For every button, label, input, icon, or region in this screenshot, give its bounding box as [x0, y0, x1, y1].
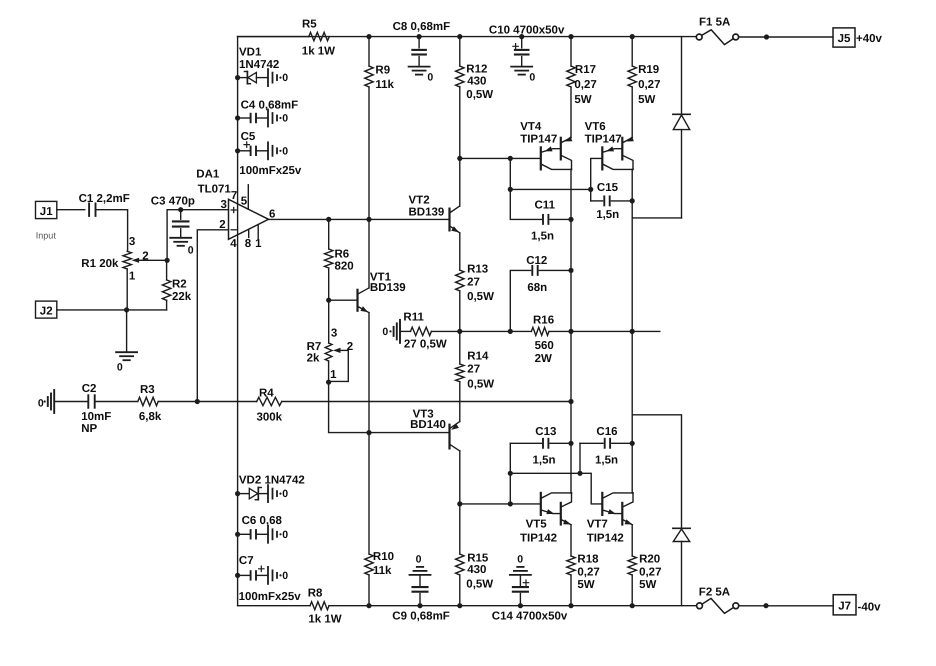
- connector J2: [36, 301, 57, 318]
- svg-text:6: 6: [269, 208, 275, 220]
- capacitor C13: [510, 426, 571, 504]
- wire VT5 collector to output column: [570, 443, 573, 493]
- node C13 at output column: [568, 441, 573, 446]
- capacitor C4: [238, 100, 299, 123]
- label pin 7: [231, 190, 237, 202]
- pin 8 stub: [248, 229, 250, 237]
- svg-text:R9: R9: [375, 65, 390, 77]
- node C15 at output column: [630, 198, 635, 203]
- svg-text:100mFx25v: 100mFx25v: [239, 591, 302, 603]
- svg-text:0: 0: [416, 553, 422, 565]
- wire right column mid: [631, 201, 633, 443]
- svg-text:0: 0: [427, 72, 433, 84]
- svg-text:5: 5: [241, 196, 248, 208]
- transistor VT7 TIP142: [587, 493, 633, 545]
- svg-text:C3 470p: C3 470p: [151, 196, 195, 208]
- svg-text:R4: R4: [259, 387, 274, 399]
- label R7 pin 2: [347, 341, 353, 353]
- resistor R6: [325, 219, 354, 300]
- wire VT4 base row: [460, 157, 541, 159]
- capacitor C12: [510, 255, 571, 331]
- transistor VT2 BD139: [409, 194, 460, 233]
- svg-text:R6: R6: [335, 249, 350, 261]
- wire R1 ground stub: [126, 310, 128, 352]
- node C11 at output column: [568, 217, 573, 222]
- svg-text:R20: R20: [639, 553, 660, 565]
- svg-text:0: 0: [282, 72, 288, 84]
- ground right of C7: [268, 567, 288, 584]
- wire tap down: [509, 158, 511, 189]
- svg-text:2W: 2W: [535, 353, 552, 365]
- node J2 row junction: [124, 307, 129, 312]
- svg-text:300k: 300k: [257, 412, 283, 424]
- label -40v: [858, 601, 882, 613]
- svg-text:0: 0: [529, 72, 535, 84]
- label pin 5: [241, 196, 248, 208]
- svg-text:0: 0: [282, 113, 288, 125]
- svg-text:C4 0,68mF: C4 0,68mF: [241, 100, 299, 112]
- svg-text:0: 0: [517, 553, 523, 565]
- ground under C8: [409, 67, 434, 84]
- capacitor C10 polarized: [489, 25, 565, 67]
- svg-text:VT2: VT2: [409, 194, 430, 206]
- svg-text:J5: J5: [838, 33, 851, 45]
- label R1 pin 2: [142, 250, 148, 262]
- svg-text:R13: R13: [467, 263, 488, 275]
- svg-text:1,5n: 1,5n: [595, 455, 618, 467]
- label pin 3: [221, 199, 227, 211]
- resistor R12: [456, 37, 494, 159]
- svg-text:+40v: +40v: [856, 33, 883, 45]
- wire R7 to VT3 base: [329, 382, 450, 432]
- node op-amp output at R9 column: [366, 217, 371, 222]
- node after F1: [764, 34, 769, 39]
- node C16 column: [577, 471, 582, 476]
- wire VT3 collector down: [459, 451, 461, 504]
- svg-text:0: 0: [282, 145, 288, 157]
- resistor R8: [308, 587, 342, 625]
- svg-text:R3: R3: [140, 384, 155, 396]
- wiper arrow of R1: [132, 258, 145, 263]
- svg-text:C9 0,68mF: C9 0,68mF: [392, 611, 450, 623]
- svg-text:C5: C5: [241, 131, 256, 143]
- svg-text:1: 1: [129, 270, 136, 282]
- node after F2: [763, 603, 768, 608]
- resistor R14: [456, 331, 495, 421]
- node R7 pin 1: [326, 380, 331, 385]
- node C14 bottom: [518, 603, 523, 608]
- wire node to R4: [197, 401, 256, 403]
- svg-text:VD1: VD1: [239, 47, 262, 59]
- svg-text:6,8k: 6,8k: [139, 411, 162, 423]
- wire VT5 base row: [460, 503, 541, 505]
- svg-text:C1 2,2mF: C1 2,2mF: [79, 193, 130, 205]
- svg-text:C15: C15: [597, 182, 619, 194]
- resistor R11: [403, 312, 446, 351]
- node feedback to op-amp pin 2: [195, 399, 200, 404]
- svg-text:11k: 11k: [373, 565, 392, 577]
- wire VT6 base jog: [591, 158, 603, 201]
- label R7 pin 1: [330, 369, 337, 381]
- node R15 bottom: [457, 603, 462, 608]
- node R10 bottom: [366, 603, 371, 608]
- svg-text:TIP142: TIP142: [520, 532, 557, 544]
- node C10 top: [519, 34, 524, 39]
- wire J2 to R2 bottom corner: [57, 309, 167, 311]
- svg-text:8: 8: [245, 238, 252, 250]
- svg-text:0,27: 0,27: [639, 567, 661, 579]
- svg-text:2k: 2k: [307, 352, 320, 364]
- svg-text:C2: C2: [82, 383, 97, 395]
- label +40v: [856, 33, 883, 45]
- wire ground to R11: [400, 330, 411, 332]
- pin 5 stub: [247, 185, 249, 209]
- ground right of VD2: [268, 485, 288, 502]
- node C3 tap: [178, 207, 183, 212]
- label C5 value: [239, 165, 302, 177]
- node VT4 base row at R12 column: [457, 156, 462, 161]
- wire R6 node to R7: [328, 300, 330, 343]
- label pin 4: [230, 238, 237, 250]
- op-amp minus input mark: [231, 229, 236, 231]
- resistor R19: [628, 37, 660, 138]
- wire bottom -40v rail R8 to fuse F2: [329, 605, 697, 607]
- node C5 tap: [235, 148, 240, 153]
- label R1 pin 1: [129, 270, 136, 282]
- wire VT7 base jog: [580, 473, 602, 504]
- label C7 value: [239, 591, 302, 603]
- zener diode VD2: [238, 474, 305, 499]
- capacitor C6: [238, 515, 283, 538]
- resistor R9: [365, 37, 395, 220]
- op-amp plus input mark: [231, 208, 236, 213]
- wiper arrow of R7: [333, 348, 348, 353]
- svg-text:C14 4700x50v: C14 4700x50v: [492, 611, 568, 623]
- resistor R2: [162, 260, 191, 310]
- svg-text:0: 0: [282, 488, 288, 500]
- node R16 left / C12 branch: [508, 329, 513, 334]
- svg-text:DA1: DA1: [196, 168, 220, 180]
- svg-text:7: 7: [231, 190, 237, 202]
- resistor R5: [238, 19, 336, 58]
- svg-text:0,27: 0,27: [638, 79, 660, 91]
- node VD1 tap: [235, 75, 240, 80]
- svg-text:22k: 22k: [172, 291, 192, 303]
- node C12 at output column: [568, 268, 573, 273]
- svg-text:VT7: VT7: [587, 519, 608, 531]
- transistor VT1 BD139: [358, 271, 406, 312]
- wire to R16: [510, 330, 531, 332]
- svg-text:27: 27: [467, 364, 480, 376]
- node C9 bottom: [417, 603, 422, 608]
- svg-text:1,5n: 1,5n: [533, 455, 556, 467]
- svg-text:C11: C11: [535, 200, 556, 212]
- transistor VT5 TIP142: [520, 493, 572, 545]
- svg-text:R10: R10: [373, 551, 394, 563]
- ground above C14: [510, 553, 531, 575]
- fuse F1: [696, 17, 738, 45]
- node VT4 base row tap: [508, 156, 513, 161]
- resistor R4: [257, 387, 283, 423]
- svg-text:R18: R18: [577, 553, 599, 565]
- svg-text:0: 0: [382, 326, 388, 338]
- svg-text:R12: R12: [466, 64, 487, 76]
- svg-text:C10 4700x50v: C10 4700x50v: [489, 25, 565, 37]
- wire C1 to R1 top: [96, 210, 128, 252]
- svg-text:560: 560: [535, 340, 554, 352]
- node C8 top: [417, 34, 422, 39]
- node R1 wiper / R2 / op-amp +input: [165, 258, 170, 263]
- svg-text:C6 0,68: C6 0,68: [242, 515, 283, 527]
- node VT5 base row tap: [508, 501, 513, 506]
- capacitor C16: [580, 426, 632, 473]
- svg-text:10mF: 10mF: [81, 411, 111, 423]
- wire VT7 collector to output column: [631, 443, 634, 493]
- wire upper diode to output column: [632, 217, 681, 219]
- svg-text:R15: R15: [467, 552, 489, 564]
- svg-text:1,5n: 1,5n: [531, 231, 554, 243]
- svg-text:0,5W: 0,5W: [467, 291, 494, 303]
- svg-text:0,5W: 0,5W: [467, 378, 494, 390]
- node output at column: [568, 329, 573, 334]
- wire output step to lower diode: [632, 415, 681, 529]
- svg-text:11k: 11k: [375, 79, 394, 91]
- svg-text:J1: J1: [40, 206, 53, 218]
- resistor R20: [628, 525, 661, 606]
- node C16 at output column: [630, 441, 635, 446]
- svg-text:C13: C13: [535, 426, 556, 438]
- svg-text:1N4742: 1N4742: [239, 59, 279, 71]
- resistor R18: [567, 525, 600, 606]
- op-amp U DA1 TL071: [196, 168, 268, 239]
- svg-text:Input: Input: [36, 231, 57, 241]
- transistor VT3 BD140: [410, 408, 460, 451]
- svg-text:3: 3: [129, 236, 135, 248]
- capacitor C8: [393, 21, 451, 66]
- node R4 at output column: [568, 399, 573, 404]
- svg-text:J2: J2: [40, 305, 53, 317]
- svg-text:C8 0,68mF: C8 0,68mF: [393, 21, 451, 33]
- svg-text:R8: R8: [308, 587, 323, 599]
- svg-text:VD2 1N4742: VD2 1N4742: [239, 474, 305, 486]
- transistor VT4 TIP147: [520, 121, 572, 170]
- svg-text:TIP142: TIP142: [587, 532, 624, 544]
- svg-text:27: 27: [467, 277, 480, 289]
- svg-text:1: 1: [330, 369, 337, 381]
- connector J5: [833, 28, 855, 47]
- wire R12 column to VT2 collector: [459, 158, 461, 206]
- svg-text:R7: R7: [307, 341, 322, 353]
- svg-text:C7: C7: [239, 555, 254, 567]
- diode lower clamp: [673, 528, 690, 605]
- wire op-amp output: [269, 218, 450, 220]
- node C4 tap: [235, 115, 240, 120]
- svg-text:100mFx25v: 100mFx25v: [239, 165, 302, 177]
- wire R11 to junction: [431, 330, 459, 332]
- capacitor C3: [151, 196, 195, 238]
- svg-text:1k 1W: 1k 1W: [302, 46, 335, 58]
- capacitor C1: [79, 193, 130, 216]
- svg-text:27 0,5W: 27 0,5W: [404, 339, 447, 351]
- svg-text:R14: R14: [467, 351, 489, 363]
- svg-text:R1 20k: R1 20k: [81, 258, 119, 270]
- svg-text:4: 4: [230, 238, 237, 250]
- resistor R16: [531, 314, 554, 365]
- svg-text:68n: 68n: [527, 282, 547, 294]
- svg-text:J7: J7: [838, 601, 851, 613]
- wire R1 wiper to node: [145, 259, 168, 261]
- node VT1 emitter at VT3 base row: [366, 430, 371, 435]
- wire left supply column (op-amp pins 7/4 rail): [237, 37, 239, 606]
- wire output stub: [632, 330, 660, 332]
- ground right of VD1: [268, 69, 288, 86]
- svg-text:430: 430: [467, 564, 486, 576]
- node R20 bottom: [630, 603, 635, 608]
- label input: [36, 231, 57, 241]
- node VT7 row tap: [508, 471, 513, 476]
- svg-text:0: 0: [38, 398, 44, 410]
- label pin 6: [269, 208, 275, 220]
- svg-text:C16: C16: [596, 426, 617, 438]
- svg-text:F1 5A: F1 5A: [699, 17, 730, 29]
- wire output row: [571, 330, 632, 332]
- capacitor C7 polarized: [238, 555, 268, 580]
- svg-text:0,27: 0,27: [574, 79, 596, 91]
- label pin 8: [245, 238, 252, 250]
- ground right of C5: [268, 142, 288, 159]
- svg-text:R11: R11: [403, 312, 424, 324]
- node VT3 at VT5 base row: [457, 501, 462, 506]
- wire VT1 collector up: [368, 219, 370, 288]
- svg-text:R16: R16: [533, 314, 554, 326]
- node VD2 tap: [235, 491, 240, 496]
- label R1 pin 3: [129, 236, 135, 248]
- pin 1 stub: [257, 225, 259, 239]
- node C11/VT6 row tap: [508, 187, 513, 192]
- wire top rail after fuse F1 to J5: [739, 36, 833, 38]
- wire J1 to C1: [57, 209, 85, 211]
- svg-text:1k 1W: 1k 1W: [308, 613, 341, 625]
- source ground at R11: [382, 320, 400, 343]
- svg-text:BD139: BD139: [370, 282, 406, 294]
- diode upper clamp: [673, 37, 690, 218]
- ground under C10: [511, 67, 535, 84]
- potentiometer R1: [81, 251, 131, 269]
- wire VT1 base: [329, 299, 358, 301]
- wire R4 to output column: [282, 401, 571, 403]
- wire VT1 emitter down: [368, 313, 370, 433]
- wire R7 wiper to pin1: [329, 350, 349, 381]
- svg-text:5W: 5W: [574, 94, 591, 106]
- capacitor C2: [81, 383, 111, 435]
- resistor R17: [567, 37, 597, 138]
- svg-text:R2: R2: [172, 279, 187, 291]
- wire R1 bottom to J2 row: [126, 269, 128, 310]
- label pin 1: [255, 238, 262, 250]
- svg-text:0,5W: 0,5W: [466, 579, 493, 591]
- capacitor C5 polarized: [238, 131, 268, 155]
- wire row to VT6 base column: [510, 188, 590, 190]
- svg-text:TIP147: TIP147: [585, 133, 622, 145]
- connector J1: [36, 201, 57, 218]
- svg-text:BD140: BD140: [410, 419, 446, 431]
- wire row to C16 column: [510, 472, 580, 474]
- node R9 top: [366, 34, 371, 39]
- svg-text:-40v: -40v: [858, 601, 882, 613]
- node op-amp output at R6 column: [326, 217, 331, 222]
- node R12 top: [457, 34, 462, 39]
- wire feedback node up to pin 2: [197, 230, 228, 402]
- ground right of C6: [268, 526, 288, 543]
- node R18 bottom: [568, 603, 573, 608]
- svg-text:R17: R17: [575, 64, 596, 76]
- capacitor C14 polarized: [492, 575, 568, 622]
- svg-text:BD139: BD139: [409, 207, 445, 219]
- svg-text:5W: 5W: [577, 579, 594, 591]
- ground above C9: [410, 553, 431, 575]
- svg-text:0,5W: 0,5W: [466, 89, 493, 101]
- wire VT6 collector to output column: [631, 169, 634, 201]
- svg-text:TIP147: TIP147: [520, 133, 557, 145]
- svg-text:R5: R5: [302, 19, 317, 31]
- svg-text:5W: 5W: [638, 94, 655, 106]
- connector J7: [833, 595, 856, 615]
- svg-text:VT4: VT4: [520, 121, 542, 133]
- svg-text:2: 2: [219, 219, 225, 231]
- label pin 2: [219, 219, 225, 231]
- wire R16 to output column: [549, 330, 571, 332]
- node R17 top: [568, 34, 573, 39]
- svg-text:820: 820: [335, 261, 354, 273]
- capacitor C11: [510, 189, 571, 242]
- source ground at C2 input: [38, 390, 54, 413]
- fuse F2: [697, 587, 739, 614]
- wire top +40v rail: [238, 36, 697, 38]
- wire VT4 collector to output column: [570, 169, 573, 219]
- resistor R15: [456, 504, 494, 606]
- svg-text:TL071: TL071: [198, 184, 232, 196]
- wire bottom -40v rail left of R8: [238, 605, 310, 607]
- svg-text:0: 0: [188, 245, 194, 257]
- wire VT2 emitter to R13: [459, 233, 461, 270]
- wire source to C2: [54, 401, 88, 403]
- svg-text:NP: NP: [81, 423, 97, 435]
- svg-text:0: 0: [282, 529, 288, 541]
- wire bottom rail after fuse F2 to J7: [739, 605, 833, 607]
- svg-text:5W: 5W: [639, 579, 656, 591]
- zener diode VD1: [238, 47, 280, 84]
- svg-text:0: 0: [282, 570, 288, 582]
- resistor R3: [138, 384, 162, 423]
- ground under R1: [116, 352, 137, 373]
- node C7 tap: [235, 573, 240, 578]
- svg-text:1: 1: [255, 238, 262, 250]
- svg-text:VT5: VT5: [526, 519, 548, 531]
- resistor R10: [365, 433, 394, 606]
- node output at right column: [630, 329, 635, 334]
- svg-text:3: 3: [331, 327, 337, 339]
- transistor VT6 TIP147: [585, 121, 634, 170]
- ground under C3: [170, 238, 194, 257]
- wire output column mid: [570, 219, 572, 443]
- wire R13 node to R16 node: [460, 330, 511, 332]
- svg-text:R19: R19: [638, 64, 659, 76]
- wire C2 to R3: [95, 401, 138, 403]
- capacitor C9: [392, 575, 450, 622]
- node VT1 base: [326, 298, 331, 303]
- svg-text:1,5n: 1,5n: [596, 209, 619, 221]
- svg-text:VT6: VT6: [585, 121, 606, 133]
